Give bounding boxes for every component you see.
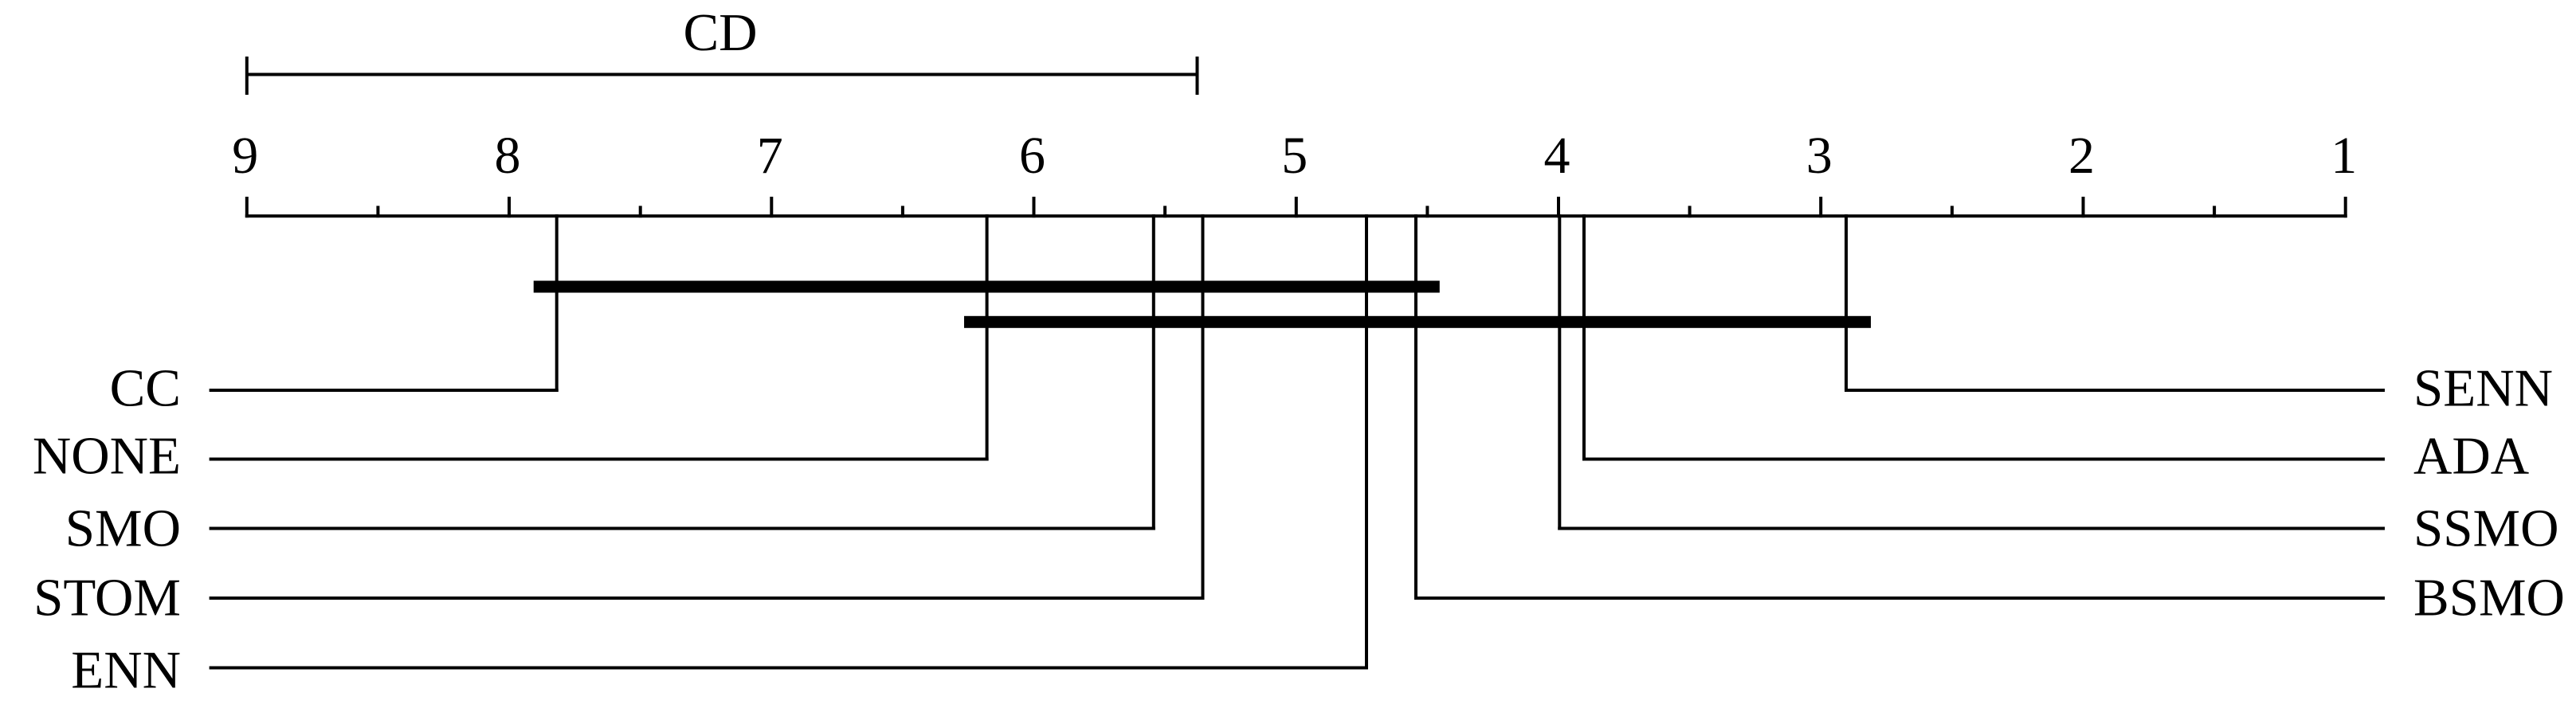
- SMO drop line: [1152, 214, 1155, 530]
- CD bracket line: [247, 73, 1198, 76]
- svg-text:ADA: ADA: [2413, 427, 2529, 486]
- SSMO drop line: [1558, 214, 1561, 530]
- svg-text:CC: CC: [110, 359, 181, 418]
- ADA drop line: [1582, 214, 1586, 460]
- svg-text:9: 9: [232, 127, 258, 185]
- svg-text:STOM: STOM: [33, 569, 181, 628]
- svg-text:BSMO: BSMO: [2413, 569, 2565, 628]
- STOM label line: [210, 597, 1205, 600]
- NONE drop line: [986, 214, 989, 460]
- svg-text:6: 6: [1019, 127, 1045, 185]
- CD bracket right cap: [1196, 57, 1199, 95]
- svg-text:SMO: SMO: [65, 499, 181, 558]
- clique bar 1 (CC..BSMO): [534, 281, 1440, 293]
- axis numbers: [232, 127, 2357, 185]
- svg-text:ENN: ENN: [71, 641, 181, 700]
- SMO label line: [210, 527, 1155, 530]
- minor ticks: [378, 206, 2214, 218]
- svg-text:NONE: NONE: [33, 427, 181, 486]
- ENN drop line: [1365, 214, 1368, 669]
- BSMO drop line: [1414, 214, 1417, 600]
- BSMO label line: [1414, 597, 2385, 600]
- ADA label line: [1582, 458, 2385, 461]
- svg-text:4: 4: [1544, 127, 1570, 185]
- svg-text:2: 2: [2068, 127, 2095, 185]
- svg-text:5: 5: [1281, 127, 1308, 185]
- SSMO label line: [1558, 527, 2385, 530]
- CD bracket left cap: [245, 57, 249, 95]
- svg-text:SENN: SENN: [2413, 359, 2553, 418]
- SENN label line: [1845, 389, 2385, 392]
- NONE label line: [210, 458, 989, 461]
- clique bar 2 (NONE..SENN): [964, 316, 1871, 328]
- svg-text:CD: CD: [683, 3, 757, 62]
- svg-text:SSMO: SSMO: [2413, 499, 2558, 558]
- STOM drop line: [1202, 214, 1205, 600]
- svg-text:7: 7: [757, 127, 783, 185]
- CC drop line: [555, 214, 559, 392]
- svg-text:1: 1: [2331, 127, 2357, 185]
- svg-text:3: 3: [1806, 127, 1833, 185]
- major ticks: [247, 197, 2346, 217]
- svg-text:8: 8: [495, 127, 521, 185]
- SENN drop line: [1845, 214, 1848, 392]
- CC label line: [210, 389, 559, 392]
- axis line: [245, 214, 2347, 217]
- ENN label line: [210, 667, 1368, 670]
